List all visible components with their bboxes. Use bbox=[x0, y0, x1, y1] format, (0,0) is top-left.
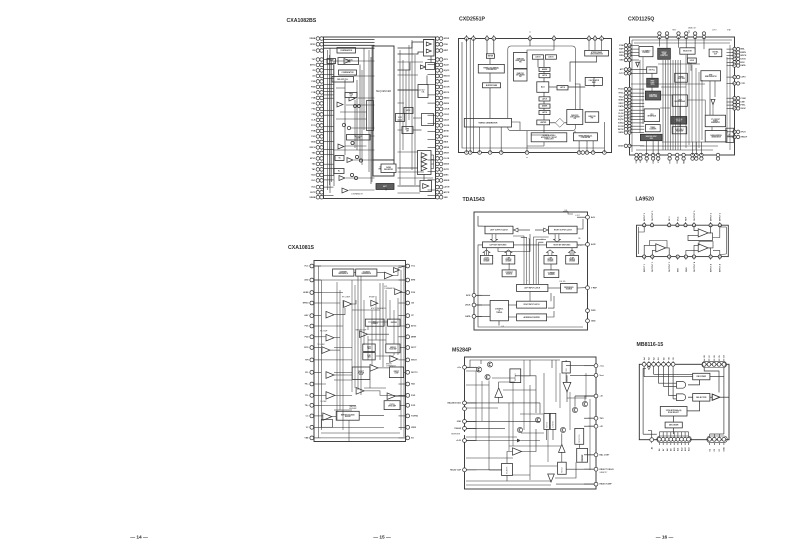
svg-text:GND: GND bbox=[619, 60, 624, 62]
svg-text:CLOK: CLOK bbox=[618, 113, 624, 115]
svg-text:TRGL: TRGL bbox=[618, 93, 624, 95]
svg-text:R OUT: R OUT bbox=[578, 245, 583, 247]
svg-text:ERCH: ERCH bbox=[310, 147, 316, 149]
svg-text:SENS: SENS bbox=[444, 147, 450, 149]
svg-text:INPUT 4: INPUT 4 bbox=[719, 263, 722, 272]
svg-text:VEE: VEE bbox=[678, 267, 680, 272]
svg-text:REFERENCE: REFERENCE bbox=[339, 273, 348, 275]
svg-text:A8: A8 bbox=[666, 449, 669, 451]
svg-text:C1F1: C1F1 bbox=[741, 83, 746, 85]
svg-text:FS2: FS2 bbox=[312, 109, 317, 111]
svg-text:CC: CC bbox=[306, 416, 309, 418]
svg-text:SYNC GEN: SYNC GEN bbox=[677, 78, 684, 80]
svg-text:GND: GND bbox=[311, 142, 316, 144]
svg-text:CXA1082BS: CXA1082BS bbox=[287, 18, 317, 24]
svg-text:CONVERTER: CONVERTER bbox=[486, 69, 497, 71]
svg-text:GND: GND bbox=[686, 267, 688, 272]
svg-text:A12: A12 bbox=[680, 448, 683, 451]
svg-text:GND: GND bbox=[591, 320, 596, 322]
svg-text:RF AMP: RF AMP bbox=[369, 296, 375, 299]
svg-text:LEFT INPUT LATCH: LEFT INPUT LATCH bbox=[524, 287, 541, 290]
svg-text:ASY: ASY bbox=[304, 314, 309, 317]
svg-text:FSX: FSX bbox=[311, 136, 316, 138]
svg-text:BUFFER RAM: BUFFER RAM bbox=[486, 84, 498, 87]
svg-text:DIVIDER: DIVIDER bbox=[506, 261, 512, 263]
svg-text:SCOR: SCOR bbox=[618, 126, 624, 128]
svg-text:BAL CONT: BAL CONT bbox=[600, 453, 611, 456]
svg-text:+15: +15 bbox=[600, 396, 603, 398]
svg-text:COMP: COMP bbox=[394, 373, 398, 375]
svg-text:MDS: MDS bbox=[619, 55, 624, 57]
svg-text:C2LR: C2LR bbox=[444, 114, 450, 116]
svg-text:TAO: TAO bbox=[311, 174, 316, 177]
svg-text:A7: A7 bbox=[662, 449, 665, 451]
svg-text:CAPACITY: CAPACITY bbox=[600, 471, 609, 474]
svg-text:REGISTER: REGISTER bbox=[676, 131, 683, 133]
svg-text:Vout: Vout bbox=[600, 374, 604, 377]
svg-text:TW1: TW1 bbox=[600, 418, 604, 420]
svg-text:RIPPLE FIL: RIPPLE FIL bbox=[515, 373, 517, 381]
svg-text:CONTROL: CONTROL bbox=[642, 52, 649, 54]
svg-text:14: 14 bbox=[685, 225, 687, 227]
svg-text:REG: REG bbox=[566, 367, 568, 371]
svg-text:REFERENCE: REFERENCE bbox=[362, 273, 371, 275]
svg-text:VC: VC bbox=[306, 427, 309, 429]
svg-text:ADDRESS POINTER: ADDRESS POINTER bbox=[523, 316, 540, 319]
svg-text:VCC: VCC bbox=[304, 266, 309, 268]
svg-text:RF I-V AMP: RF I-V AMP bbox=[320, 330, 327, 333]
svg-text:A4: A4 bbox=[643, 357, 646, 360]
svg-text:SCOR: SCOR bbox=[444, 87, 450, 89]
svg-text:RFI: RFI bbox=[305, 360, 309, 362]
svg-text:BCK: BCK bbox=[741, 62, 746, 64]
svg-text:OUTPUT 1: OUTPUT 1 bbox=[652, 261, 654, 272]
svg-text:DIV: DIV bbox=[350, 95, 353, 97]
svg-text:TE-: TE- bbox=[305, 395, 309, 397]
svg-text:GND2: GND2 bbox=[618, 132, 623, 134]
svg-text:NF 2: NF 2 bbox=[669, 216, 671, 221]
svg-text:=: = bbox=[529, 31, 531, 34]
svg-text:SFDR: SFDR bbox=[444, 38, 450, 40]
svg-text:SSTP: SSTP bbox=[310, 192, 316, 194]
svg-text:LRCK: LRCK bbox=[741, 58, 747, 60]
svg-text:FSB: FSB bbox=[311, 131, 316, 133]
svg-text:VCC: VCC bbox=[411, 266, 416, 268]
svg-text:XRMB: XRMB bbox=[309, 197, 315, 199]
svg-text:— 14 —: — 14 — bbox=[130, 534, 148, 540]
svg-text:OUTPUT 1: OUTPUT 1 bbox=[669, 261, 671, 272]
svg-text:TA1: TA1 bbox=[312, 168, 317, 171]
svg-text:FGD: FGD bbox=[411, 395, 416, 397]
svg-text:LEFT BIT SWITCHES: LEFT BIT SWITCHES bbox=[490, 244, 508, 246]
svg-text:REF: REF bbox=[685, 216, 687, 221]
svg-text:FOK: FOK bbox=[384, 286, 387, 288]
svg-text:DATA: DATA bbox=[444, 163, 450, 166]
svg-text:AC: AC bbox=[312, 75, 315, 78]
svg-text:RELAY DR: RELAY DR bbox=[506, 466, 509, 474]
svg-text:TIMING: TIMING bbox=[496, 312, 503, 314]
svg-text:A10: A10 bbox=[673, 448, 676, 451]
svg-text:A0: A0 bbox=[662, 357, 665, 359]
svg-text:RL1: RL1 bbox=[312, 180, 317, 182]
svg-text:CONVERTER: CONVERTER bbox=[581, 137, 591, 139]
svg-text:+Vin: +Vin bbox=[457, 367, 462, 369]
svg-text:T E1-V AMP: T E1-V AMP bbox=[317, 343, 325, 346]
svg-text:ATSC: ATSC bbox=[310, 157, 316, 160]
svg-text:CXD1125Q: CXD1125Q bbox=[628, 17, 654, 23]
svg-text:PSSL: PSSL bbox=[741, 105, 747, 107]
svg-text:CNT: CNT bbox=[406, 130, 409, 132]
svg-text:RZ: RZ bbox=[313, 70, 316, 72]
svg-text:XLAT: XLAT bbox=[619, 109, 625, 112]
svg-text:XRST: XRST bbox=[444, 153, 450, 155]
svg-text:AVD: AVD bbox=[304, 279, 309, 282]
svg-text:CTL: CTL bbox=[421, 92, 424, 94]
svg-text:FOD: FOD bbox=[411, 405, 416, 407]
svg-text:BUFFER: BUFFER bbox=[345, 416, 351, 418]
svg-text:DIVIDER: DIVIDER bbox=[569, 261, 575, 263]
svg-text:A5: A5 bbox=[651, 447, 654, 449]
svg-text:GND: GND bbox=[724, 447, 726, 452]
svg-text:C I-V AMP: C I-V AMP bbox=[320, 400, 327, 403]
svg-text:SQCK: SQCK bbox=[618, 119, 624, 121]
svg-text:1 W: 1 W bbox=[501, 326, 504, 328]
svg-text:CXA1081S: CXA1081S bbox=[288, 245, 314, 251]
svg-text:CP: CP bbox=[411, 315, 414, 317]
svg-text:VEE2: VEE2 bbox=[411, 427, 417, 429]
svg-text:COMPARATOR: COMPARATOR bbox=[340, 49, 353, 52]
svg-text:ATSC: ATSC bbox=[411, 325, 417, 328]
svg-text:DATA: DATA bbox=[741, 64, 747, 67]
svg-text:M5284P: M5284P bbox=[452, 348, 472, 354]
svg-text:REJECT DELAY: REJECT DELAY bbox=[600, 468, 615, 471]
svg-text:AVDD: AVDD bbox=[618, 144, 624, 147]
svg-text:SQOF: SQOF bbox=[444, 70, 450, 72]
svg-text:INPUT 3: INPUT 3 bbox=[720, 212, 722, 221]
svg-text:C16M: C16M bbox=[741, 98, 746, 100]
svg-text:C2PO: C2PO bbox=[712, 30, 717, 32]
svg-text:REJECT: REJECT bbox=[562, 467, 564, 473]
svg-text:CB: CB bbox=[411, 303, 414, 305]
svg-text:F1B: F1B bbox=[312, 92, 316, 94]
svg-text:+2.4V: +2.4V bbox=[456, 439, 462, 442]
svg-text:TGL2: TGL2 bbox=[619, 96, 624, 98]
svg-text:XPD1: XPD1 bbox=[310, 44, 316, 46]
svg-text:SBSY: SBSY bbox=[444, 81, 450, 83]
svg-text:SRCH: SRCH bbox=[411, 360, 417, 362]
svg-text:ROM SELECT: ROM SELECT bbox=[668, 412, 680, 414]
svg-text:DATA: DATA bbox=[444, 102, 450, 105]
svg-text:VCC: VCC bbox=[677, 216, 679, 221]
svg-text:SELECTOR: SELECTOR bbox=[696, 397, 707, 399]
svg-text:TIMING GEN: TIMING GEN bbox=[649, 96, 657, 98]
svg-text:DIVIDER: DIVIDER bbox=[548, 261, 554, 263]
svg-text:1 BL 180: 1 BL 180 bbox=[559, 281, 565, 283]
svg-text:V REF: V REF bbox=[591, 287, 598, 289]
svg-text:REVERSER: REVERSER bbox=[451, 434, 461, 436]
svg-text:O4: O4 bbox=[723, 354, 726, 357]
svg-text:SRDR: SRDR bbox=[444, 180, 450, 182]
svg-text:PCO: PCO bbox=[311, 125, 316, 127]
svg-text:SOURCE: SOURCE bbox=[506, 274, 512, 276]
svg-text:TST: TST bbox=[312, 59, 317, 61]
svg-text:SBSO: SBSO bbox=[444, 98, 450, 100]
svg-text:CXD2551P: CXD2551P bbox=[459, 17, 485, 23]
svg-text:APCR: APCR bbox=[444, 191, 450, 194]
svg-text:COMPARATOR: COMPARATOR bbox=[342, 71, 355, 74]
svg-text:CLTV: CLTV bbox=[619, 73, 625, 75]
svg-text:TE2: TE2 bbox=[312, 153, 317, 155]
svg-text:TE+: TE+ bbox=[305, 405, 310, 407]
svg-text:BCK: BCK bbox=[466, 295, 471, 297]
svg-text:XRMB: XRMB bbox=[309, 38, 315, 40]
svg-text:CONNECT: CONNECT bbox=[371, 323, 378, 325]
svg-text:DATA OUT: DATA OUT bbox=[688, 27, 696, 30]
svg-text:LEFT OUTPUT LATCH: LEFT OUTPUT LATCH bbox=[490, 229, 508, 232]
svg-text:A11: A11 bbox=[677, 448, 680, 451]
svg-text:MIRROR: MIRROR bbox=[386, 364, 392, 366]
svg-text:A14: A14 bbox=[687, 447, 690, 451]
svg-text:MUTING: MUTING bbox=[546, 421, 548, 428]
svg-text:MON: MON bbox=[619, 52, 624, 54]
svg-text:EXCK: EXCK bbox=[444, 92, 450, 94]
svg-text:GFS: GFS bbox=[444, 59, 449, 61]
svg-text:XPLH: XPLH bbox=[741, 131, 747, 133]
svg-text:20TH ORDER: 20TH ORDER bbox=[570, 117, 580, 119]
svg-text:XTAI: XTAI bbox=[727, 29, 731, 32]
svg-text:MON: MON bbox=[444, 136, 449, 138]
svg-text:+25: +25 bbox=[600, 426, 603, 428]
svg-text:CLK: CLK bbox=[311, 120, 316, 122]
svg-text:LA9520: LA9520 bbox=[636, 197, 655, 203]
svg-text:TIMING UNIT: TIMING UNIT bbox=[544, 139, 553, 141]
svg-text:L OUT: L OUT bbox=[575, 215, 580, 217]
svg-text:RL0: RL0 bbox=[312, 187, 317, 189]
svg-text:STK PLL: STK PLL bbox=[649, 70, 655, 72]
svg-text:AOL: AOL bbox=[591, 216, 596, 219]
svg-text:MDP: MDP bbox=[444, 50, 449, 52]
svg-text:A13: A13 bbox=[684, 448, 687, 451]
svg-text:BALANCE ADJ: BALANCE ADJ bbox=[448, 402, 461, 405]
svg-text:+Vcc: +Vcc bbox=[600, 365, 604, 367]
svg-text:INPUT 3: INPUT 3 bbox=[711, 212, 713, 221]
svg-text:MDP: MDP bbox=[619, 49, 624, 51]
svg-text:EFMO: EFMO bbox=[303, 303, 309, 305]
svg-text:VEE: VEE bbox=[304, 438, 309, 440]
svg-text:CURRENT: CURRENT bbox=[548, 272, 555, 274]
svg-text:WFCK: WFCK bbox=[618, 129, 624, 131]
svg-text:DIRC: DIRC bbox=[444, 175, 449, 177]
svg-text:FWD: FWD bbox=[591, 310, 596, 312]
svg-text:WDCK: WDCK bbox=[444, 76, 451, 78]
svg-text:SELECTOR: SELECTOR bbox=[683, 51, 692, 53]
svg-text:— 15 —: — 15 — bbox=[373, 534, 391, 540]
svg-text:C2FG: C2FG bbox=[741, 77, 747, 79]
svg-text:F2B: F2B bbox=[312, 98, 316, 100]
svg-text:TEST: TEST bbox=[672, 30, 676, 32]
svg-text:METER: METER bbox=[488, 56, 494, 58]
svg-text:OUTPUT 3: OUTPUT 3 bbox=[694, 210, 696, 221]
svg-text:XRST: XRST bbox=[618, 103, 624, 105]
svg-text:SOURCE: SOURCE bbox=[548, 274, 554, 276]
svg-text:O7: O7 bbox=[709, 355, 711, 358]
svg-text:WDCK: WDCK bbox=[741, 55, 748, 57]
svg-text:RF I-V AMP: RF I-V AMP bbox=[342, 296, 350, 299]
svg-text:XUGF: XUGF bbox=[741, 108, 747, 110]
svg-text:A9: A9 bbox=[670, 449, 673, 451]
svg-text:FOK: FOK bbox=[444, 44, 449, 46]
svg-text:MBL: MBL bbox=[741, 49, 746, 51]
svg-text:AOR: AOR bbox=[591, 243, 596, 246]
svg-text:REFERENCE: REFERENCE bbox=[564, 287, 573, 289]
svg-text:DECODER: DECODER bbox=[697, 376, 707, 378]
svg-text:BAL AMP: BAL AMP bbox=[581, 454, 584, 460]
svg-text:MDS: MDS bbox=[444, 142, 449, 144]
svg-text:LRCK: LRCK bbox=[465, 305, 471, 307]
svg-text:DBL SPD PLL: DBL SPD PLL bbox=[337, 79, 348, 81]
svg-text:CONTROL: CONTROL bbox=[553, 420, 555, 427]
svg-text:DIVIDER: DIVIDER bbox=[484, 261, 490, 263]
svg-text:FE+: FE+ bbox=[305, 384, 310, 386]
svg-text:LDON: LDON bbox=[444, 187, 450, 189]
svg-text:REJECT AMP: REJECT AMP bbox=[600, 483, 613, 486]
svg-text:HIGH ORDER: HIGH ORDER bbox=[515, 60, 526, 62]
svg-text:SENS: SENS bbox=[618, 100, 624, 102]
svg-text:C8M: C8M bbox=[741, 102, 745, 104]
svg-text:OUTPUT 4: OUTPUT 4 bbox=[693, 261, 696, 272]
svg-text:ATSK: ATSK bbox=[444, 130, 450, 133]
svg-text:FS3: FS3 bbox=[312, 114, 317, 116]
svg-text:A6: A6 bbox=[658, 449, 661, 451]
svg-text:O8: O8 bbox=[704, 355, 706, 358]
svg-text:SOURCE: SOURCE bbox=[566, 289, 572, 291]
svg-text:ZERO DETECTION: ZERO DETECTION bbox=[590, 54, 602, 56]
svg-text:ATSC COMPARATOR: ATSC COMPARATOR bbox=[371, 307, 387, 310]
svg-text:LOCK: LOCK bbox=[444, 109, 450, 111]
svg-text:A3: A3 bbox=[648, 357, 651, 359]
svg-text:XLON: XLON bbox=[444, 125, 450, 127]
svg-text:CLOK: CLOK bbox=[444, 158, 450, 160]
svg-text:ATRC: ATRC bbox=[310, 64, 316, 67]
svg-text:C4LR: C4LR bbox=[444, 119, 450, 122]
svg-text:CE: CE bbox=[673, 357, 675, 360]
svg-text:SUBQ: SUBQ bbox=[618, 123, 624, 125]
svg-text:SEQUENCER: SEQUENCER bbox=[376, 90, 391, 93]
svg-text:COUNTER: COUNTER bbox=[649, 129, 656, 131]
svg-text:PD2: PD2 bbox=[305, 336, 310, 338]
svg-text:ALU: ALU bbox=[541, 86, 546, 89]
svg-text:SO: SO bbox=[411, 438, 414, 440]
svg-text:O5: O5 bbox=[719, 355, 721, 358]
svg-text:O1: O1 bbox=[719, 449, 721, 452]
svg-text:INPUT 1: INPUT 1 bbox=[644, 263, 646, 272]
svg-text:COMPARATOR: COMPARATOR bbox=[351, 193, 364, 196]
svg-text:CLV SERVO: CLV SERVO bbox=[642, 50, 651, 52]
svg-text:RELAY CAP: RELAY CAP bbox=[450, 468, 461, 471]
svg-text:FOCS: FOCS bbox=[618, 89, 624, 91]
svg-text:DFCT2: DFCT2 bbox=[411, 372, 418, 374]
svg-text:1 C: 1 C bbox=[541, 239, 544, 241]
svg-text:MB8116-15: MB8116-15 bbox=[637, 342, 664, 348]
svg-text:OUTPUT 2: OUTPUT 2 bbox=[652, 210, 654, 221]
svg-text:EMPH: EMPH bbox=[741, 52, 747, 54]
svg-text:INPUT 2: INPUT 2 bbox=[644, 212, 646, 221]
svg-text:FSW: FSW bbox=[311, 87, 316, 89]
svg-text:12: 12 bbox=[668, 225, 670, 227]
svg-text:REGISTER: REGISTER bbox=[384, 169, 393, 171]
svg-text:PD1: PD1 bbox=[305, 326, 310, 328]
svg-text:GND: GND bbox=[457, 421, 462, 423]
svg-text:A2: A2 bbox=[652, 357, 655, 359]
svg-text:DATA: DATA bbox=[465, 315, 471, 318]
svg-text:DECODER: DECODER bbox=[669, 425, 679, 427]
svg-text:FSW: FSW bbox=[619, 45, 623, 47]
svg-text:FS1: FS1 bbox=[312, 103, 317, 105]
svg-text:RS: RS bbox=[313, 50, 316, 52]
svg-text:OUT: OUT bbox=[714, 53, 717, 55]
svg-text:13: 13 bbox=[676, 225, 678, 227]
svg-text:TA2: TA2 bbox=[312, 163, 317, 166]
svg-text:RFO: RFO bbox=[304, 347, 309, 349]
svg-text:OE: OE bbox=[668, 356, 670, 359]
svg-text:=: = bbox=[526, 157, 528, 160]
svg-text:XTSL: XTSL bbox=[636, 159, 638, 163]
svg-text:DATA: DATA bbox=[619, 105, 625, 108]
svg-text:FE-: FE- bbox=[305, 372, 309, 374]
svg-text:DFCT: DFCT bbox=[411, 347, 417, 349]
svg-text:180: 180 bbox=[578, 238, 581, 240]
svg-text:LIMITER: LIMITER bbox=[540, 122, 547, 124]
svg-text:XLAT: XLAT bbox=[444, 64, 450, 67]
svg-text:TIMING GENERATOR: TIMING GENERATOR bbox=[478, 121, 498, 124]
svg-text:FOK: FOK bbox=[411, 292, 416, 294]
svg-text:BUFFER: BUFFER bbox=[391, 322, 398, 324]
svg-text:SQSY: SQSY bbox=[618, 116, 624, 118]
svg-text:INPUT 4: INPUT 4 bbox=[710, 263, 713, 272]
svg-text:O6: O6 bbox=[714, 355, 716, 358]
svg-text:*: * bbox=[527, 281, 528, 283]
svg-text:TAO: TAO bbox=[411, 383, 416, 386]
svg-text:MIRR: MIRR bbox=[411, 336, 417, 338]
svg-text:11: 11 bbox=[651, 225, 653, 227]
svg-text:PHASE: PHASE bbox=[454, 427, 461, 430]
svg-text:X'TAL: X'TAL bbox=[728, 133, 731, 137]
svg-text:AVEE: AVEE bbox=[303, 291, 309, 294]
svg-text:EFM: EFM bbox=[411, 280, 416, 282]
svg-text:O2: O2 bbox=[714, 449, 716, 452]
svg-text:VEE: VEE bbox=[444, 197, 449, 199]
svg-text:XLTR: XLTR bbox=[444, 169, 450, 171]
svg-text:APT: APT bbox=[620, 68, 625, 71]
svg-text:FSE: FSE bbox=[311, 81, 316, 83]
svg-text:RL: RL bbox=[338, 171, 340, 173]
svg-text:TRACKING\nAMP: TRACKING\nAMP bbox=[355, 329, 366, 332]
svg-text:RIGHT BIT SWITCHES: RIGHT BIT SWITCHES bbox=[553, 244, 570, 246]
svg-text:TCRNG: TCRNG bbox=[411, 416, 419, 418]
svg-text:O3: O3 bbox=[709, 449, 711, 452]
svg-text:TDA1543: TDA1543 bbox=[463, 197, 485, 203]
svg-text:DETECTOR: DETECTOR bbox=[579, 434, 581, 443]
svg-text:XRAOF: XRAOF bbox=[741, 136, 748, 139]
svg-text:GEN: GEN bbox=[650, 138, 653, 140]
svg-text:— 16 —: — 16 — bbox=[656, 534, 674, 540]
svg-text:A1: A1 bbox=[657, 357, 660, 359]
